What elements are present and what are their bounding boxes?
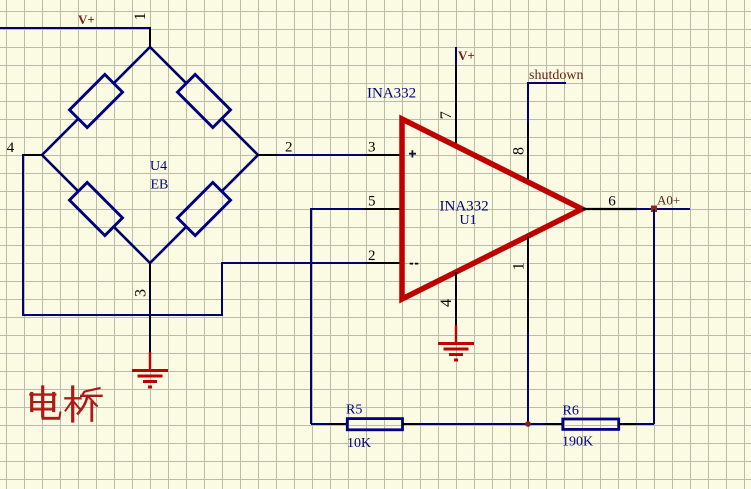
svg-text:4: 4 [7,140,15,156]
svg-text:V+: V+ [458,48,475,63]
wire U1 pin2 net [221,262,366,264]
wire bridge pin3 to ground [149,282,151,352]
text 桥 (qiao) [66,387,102,421]
svg-text:U4: U4 [150,159,167,174]
svg-text:1: 1 [510,262,527,270]
svg-text:2: 2 [368,248,376,264]
svg-text:U1: U1 [460,213,477,228]
svg-text:4: 4 [438,299,455,307]
wire R6 to output [637,423,654,425]
svg-text:1: 1 [132,12,149,20]
svg-text:10K: 10K [347,436,371,451]
wire bridge output to U1 pin3 [277,154,366,156]
pin 2 U1 [365,262,402,264]
pin 4 U1 [455,272,457,326]
resistor bottom-left of bridge U4 [69,182,122,235]
svg-text:8: 8 [511,147,528,155]
bridge U4 diamond wires [42,47,258,263]
plus marker U1 [409,150,416,157]
pin 1 R5 [329,423,348,425]
wire pin4 down and across to U1 pin2 [23,154,222,315]
svg-text:R6: R6 [563,403,579,418]
svg-text:INA332: INA332 [367,86,416,102]
pin 1 R6 [545,423,563,425]
wire output down to feedback [653,209,655,424]
svg-text:INA332: INA332 [440,198,489,214]
pin 2 U4 stub [257,154,278,156]
resistor bottom-right of bridge U4 [177,182,230,235]
ground symbol (bridge) [132,352,168,387]
resistor top-right of bridge U4 [177,74,230,127]
pin 8 U1 [527,123,529,182]
resistor top-left of bridge U4 [69,74,122,127]
power port V+ (op-amp) [455,47,457,66]
svg-text:EB: EB [151,177,169,192]
pin 2 R5 [402,423,421,425]
minus marker U1 [410,263,419,265]
wire R5 to R6 [420,423,545,425]
pin 2 R6 [619,423,637,425]
pin 4 U4 stub [23,154,43,156]
pin 1 U4 [149,27,151,48]
wire output net A0+ [636,208,690,210]
wire shutdown net [528,83,566,124]
junction output node [651,206,657,213]
pin 3 U4 [149,262,151,283]
text 电 (dian) [30,387,60,419]
svg-text:R5: R5 [346,403,362,418]
ground symbol (op-amp) [438,325,474,360]
svg-text:7: 7 [438,111,455,119]
pin 5 U1 [365,208,402,210]
svg-text:3: 3 [132,289,149,297]
svg-text:190K: 190K [562,435,593,450]
pin 7 U1 [455,65,457,146]
junction feedback node [525,421,531,427]
svg-text:2: 2 [285,140,293,156]
pin 6 U1 [582,208,637,210]
op-amp U1 triangle [402,119,582,299]
svg-text:A0+: A0+ [657,193,680,208]
svg-text:V+: V+ [78,12,95,27]
resistor R5 body [347,419,402,430]
svg-text:6: 6 [608,194,616,210]
wire bottom feedback left [311,423,330,425]
pin 1 U1 [527,236,529,333]
svg-text:shutdown: shutdown [529,68,583,83]
pin 3 U1 [365,154,402,156]
svg-text:5: 5 [368,194,376,210]
wire U1 pin5 net [311,209,366,424]
wire V+ feed to bridge [0,27,150,29]
wire pin1 to feedback node [527,332,529,424]
svg-text:3: 3 [368,140,376,156]
resistor R6 body [563,419,619,429]
